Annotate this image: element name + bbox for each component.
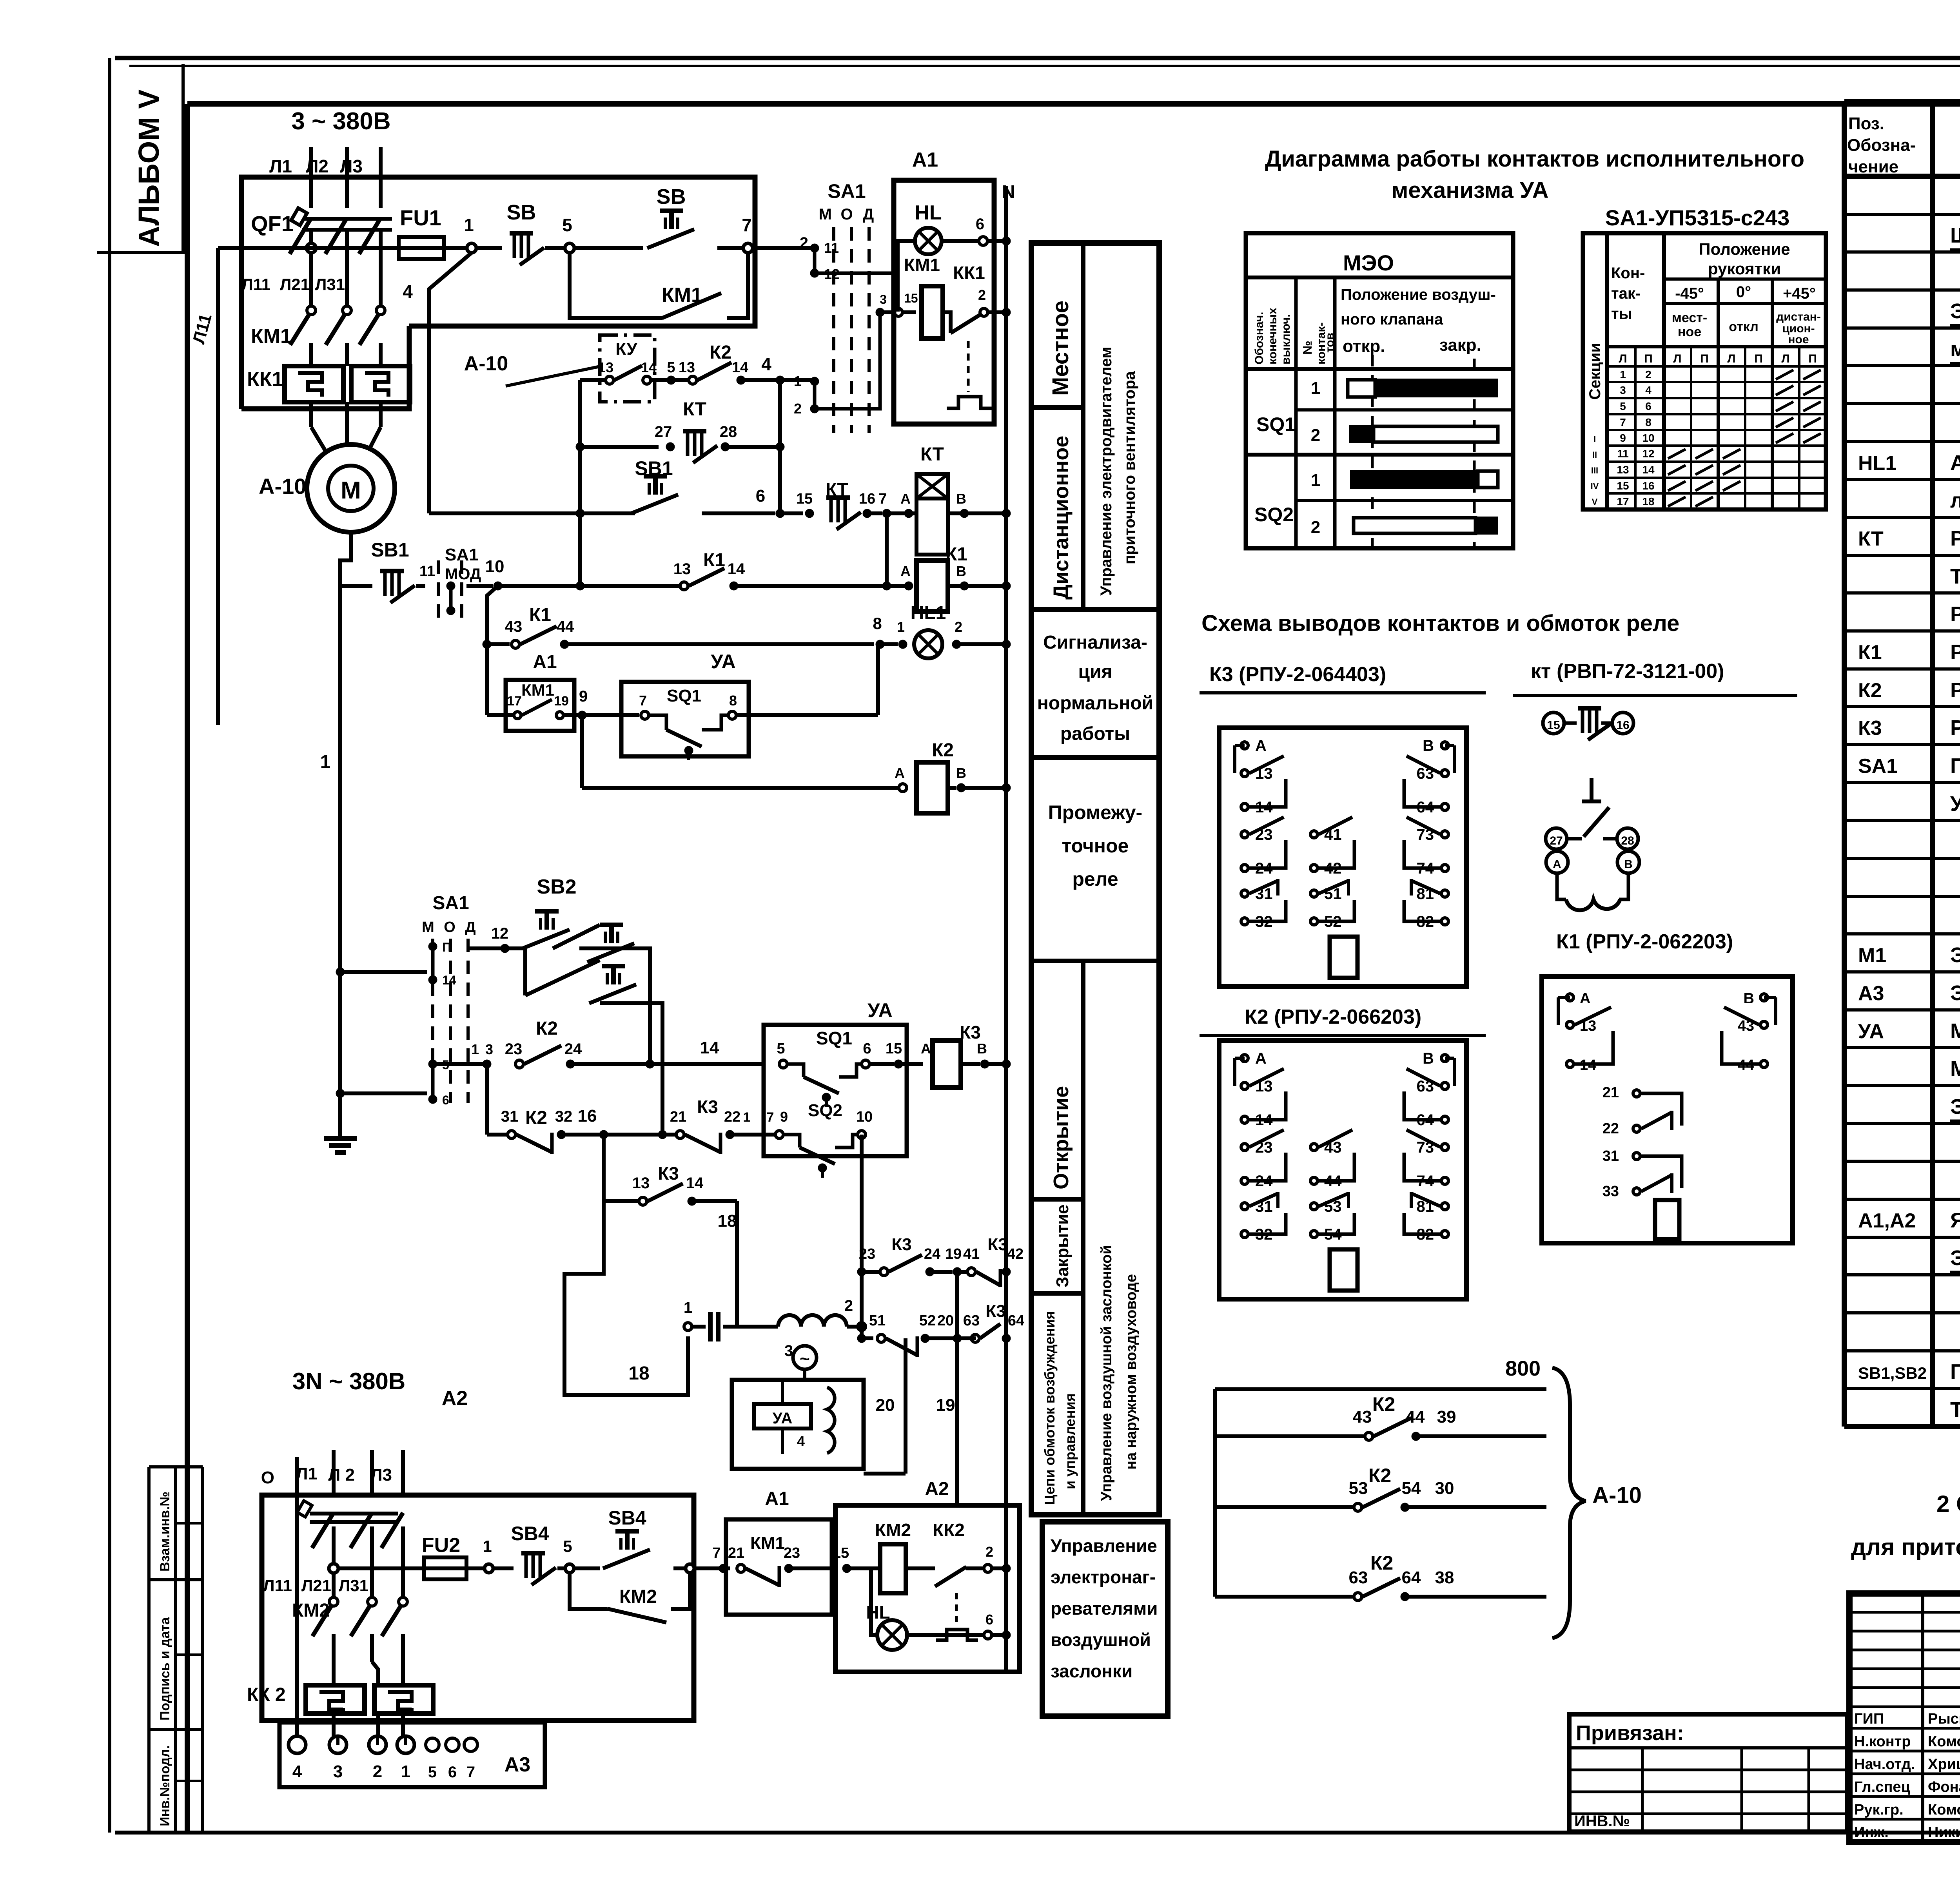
svg-text:Управление электродвигателем: Управление электродвигателем <box>1098 347 1115 596</box>
privyazan block <box>1569 1714 1847 1833</box>
svg-text:42: 42 <box>1007 1246 1024 1262</box>
relay pinout К2 (РПУ-2-066203) <box>1200 1006 1486 1299</box>
svg-text:2: 2 <box>794 401 802 417</box>
svg-text:№: № <box>1300 341 1314 355</box>
svg-text:Л21: Л21 <box>280 275 310 294</box>
thermal relay KK1 heaters <box>247 366 410 451</box>
svg-text:Реле ТУ16.523.331-71: Реле ТУ16.523.331-71 <box>1950 602 1960 626</box>
circuit breaker QF1 <box>251 208 392 306</box>
svg-text:11: 11 <box>824 240 839 256</box>
svg-text:КМ1: КМ1 <box>750 1534 785 1553</box>
svg-text:Ящик управления: Ящик управления <box>1950 1209 1960 1232</box>
svg-text:К2: К2 <box>932 740 954 761</box>
heater control box <box>1042 1522 1168 1716</box>
svg-text:3N ~ 380В: 3N ~ 380В <box>292 1368 406 1394</box>
parts table rows text <box>1950 224 1960 255</box>
svg-text:М1: М1 <box>1858 944 1886 967</box>
contact K1 43-44 (rung HL1) <box>483 605 874 649</box>
svg-text:В: В <box>1423 737 1434 754</box>
wire left bus verticals <box>576 380 784 586</box>
svg-text:3: 3 <box>1620 384 1626 396</box>
svg-text:8: 8 <box>1645 416 1651 428</box>
node 1 <box>464 215 476 253</box>
MEO table <box>1246 233 1513 548</box>
svg-text:32: 32 <box>555 1108 573 1125</box>
svg-text:2: 2 <box>844 1297 853 1314</box>
svg-text:откр.: откр. <box>1343 337 1385 356</box>
svg-text:1: 1 <box>471 1041 479 1057</box>
svg-text:дистан-: дистан- <box>1776 310 1821 323</box>
svg-text:44: 44 <box>557 618 574 635</box>
svg-text:27: 27 <box>655 423 672 441</box>
svg-text:SQ1: SQ1 <box>816 1028 852 1048</box>
svg-text:А1: А1 <box>765 1488 789 1509</box>
svg-text:Л11: Л11 <box>241 275 270 294</box>
svg-text:13: 13 <box>679 359 695 376</box>
svg-text:7: 7 <box>639 692 647 709</box>
svg-text:Местное: Местное <box>1048 301 1073 396</box>
svg-text:33: 33 <box>1602 1183 1619 1200</box>
svg-text:механизма УА: механизма УА <box>1391 178 1548 203</box>
start button SB (NO) <box>574 185 743 248</box>
svg-text:К3: К3 <box>658 1163 679 1184</box>
svg-text:А1: А1 <box>533 652 557 673</box>
wire rail node7 to SA1 <box>753 246 815 250</box>
svg-text:2: 2 <box>1311 426 1320 445</box>
thermal contact KK1 <box>943 263 1011 408</box>
function classification bar <box>1031 243 1159 1515</box>
svg-text:1: 1 <box>897 619 905 635</box>
svg-text:Н.контр: Н.контр <box>1854 1733 1911 1750</box>
svg-text:КК1: КК1 <box>953 263 985 283</box>
diagram title <box>1265 146 1804 203</box>
svg-text:и управления: и управления <box>1062 1393 1078 1489</box>
signature table <box>1849 1593 1960 1842</box>
SA1 table X marks <box>1668 370 1821 506</box>
breaker QF2 poles <box>297 1501 403 1597</box>
relay pinout KT <box>1513 660 1797 910</box>
svg-text:Л31: Л31 <box>315 275 345 294</box>
svg-text:3 ~ 380В: 3 ~ 380В <box>291 108 390 135</box>
svg-text:SQ2: SQ2 <box>808 1101 842 1120</box>
node on L1 with main rail <box>307 243 316 253</box>
contact K3 13-14 <box>599 1130 737 1327</box>
svg-text:А-10: А-10 <box>259 474 306 499</box>
svg-text:+45°: +45° <box>1783 285 1816 302</box>
wire main rail left segment <box>218 246 399 250</box>
svg-text:2 Схема составлена для приточн: 2 Схема составлена для приточной системы… <box>1936 1491 1960 1517</box>
svg-text:5: 5 <box>777 1041 785 1057</box>
box A1 with KM1 21-23 <box>694 1488 851 1615</box>
svg-text:П: П <box>442 940 451 954</box>
svg-text:КК1: КК1 <box>247 368 283 391</box>
svg-text:К2 (РПУ-2-066203): К2 (РПУ-2-066203) <box>1245 1006 1421 1028</box>
svg-text:5: 5 <box>667 359 675 376</box>
wires 20 19 <box>864 1338 957 1505</box>
svg-text:В: В <box>956 765 966 781</box>
svg-text:IV: IV <box>1591 481 1599 491</box>
svg-text:Рыскин: Рыскин <box>1928 1711 1960 1727</box>
box YA with limit switch SQ1 7-8 <box>577 644 878 760</box>
svg-text:РПУ-2-064403: РПУ-2-064403 <box>1950 716 1960 740</box>
svg-text:конечных: конечных <box>1266 308 1279 364</box>
svg-text:Подпись и дата: Подпись и дата <box>158 1617 172 1720</box>
svg-text:УА: УА <box>867 999 892 1021</box>
svg-text:I: I <box>1593 434 1596 444</box>
svg-text:КМ2: КМ2 <box>875 1520 911 1540</box>
svg-text:14: 14 <box>1642 464 1655 476</box>
svg-text:К3: К3 <box>697 1097 718 1117</box>
contact K2 13-14 <box>666 342 815 384</box>
svg-text:6: 6 <box>448 1764 457 1781</box>
svg-text:23: 23 <box>859 1246 875 1262</box>
svg-text:15: 15 <box>904 291 918 305</box>
svg-text:Инв.№подл.: Инв.№подл. <box>158 1745 172 1826</box>
button SB4 (NC) <box>493 1523 565 1585</box>
svg-text:закр.: закр. <box>1439 335 1481 355</box>
svg-text:Д: Д <box>465 919 475 935</box>
svg-text:Кон-: Кон- <box>1611 265 1645 282</box>
contactor KM2 main contacts <box>263 1576 407 1685</box>
svg-text:22: 22 <box>724 1109 740 1125</box>
svg-text:SA1: SA1 <box>1858 755 1898 778</box>
svg-text:64: 64 <box>1008 1312 1024 1329</box>
svg-text:Управление воздушной заслонк: Управление воздушной заслонкой <box>1098 1245 1115 1501</box>
svg-text:КМ1: КМ1 <box>521 681 554 699</box>
svg-text:19: 19 <box>554 694 569 709</box>
svg-text:SB4: SB4 <box>511 1523 549 1545</box>
svg-text:А2: А2 <box>442 1387 468 1410</box>
lamp HL1 <box>873 603 1011 658</box>
svg-text:кт (РВП-72-3121-00): кт (РВП-72-3121-00) <box>1531 660 1724 683</box>
svg-text:Л: Л <box>1727 352 1735 365</box>
wire node1 dropper <box>429 253 472 513</box>
svg-text:III: III <box>1591 466 1598 475</box>
rung K2 23-24 to K3 coil <box>433 1018 764 1068</box>
svg-text:6: 6 <box>863 1041 871 1057</box>
svg-text:КК2: КК2 <box>933 1520 965 1540</box>
svg-text:приточного вентилятора: приточного вентилятора <box>1121 371 1138 564</box>
svg-text:К3: К3 <box>1858 717 1882 740</box>
wire dropper node10 <box>487 586 498 715</box>
svg-text:Л3: Л3 <box>340 156 363 176</box>
svg-text:FU1: FU1 <box>400 205 441 230</box>
wire rail FU1 to node 1 <box>444 246 467 250</box>
svg-text:1: 1 <box>483 1537 492 1555</box>
svg-text:О: О <box>840 206 853 223</box>
svg-text:17: 17 <box>1617 495 1629 508</box>
svg-text:К1: К1 <box>1858 641 1882 664</box>
interlock KU box <box>464 335 655 402</box>
box A1 (fan control) <box>894 149 994 424</box>
bar merged cells text <box>1037 632 1153 890</box>
svg-text:16: 16 <box>859 491 875 507</box>
svg-text:18: 18 <box>628 1363 649 1384</box>
svg-text:Закрытие: Закрытие <box>1053 1204 1072 1287</box>
svg-text:SQ1: SQ1 <box>667 686 701 705</box>
svg-text:Элементы управления электродви: Элементы управления электродвигателем М1 <box>1950 1246 1960 1270</box>
svg-text:7: 7 <box>1620 416 1626 428</box>
svg-text:SB4: SB4 <box>608 1507 646 1529</box>
svg-text:6: 6 <box>1645 400 1651 412</box>
ladder rung 10: SB1 NC + SA1 + K1 13-14 <box>340 539 891 619</box>
svg-text:4: 4 <box>761 354 771 374</box>
svg-text:38: 38 <box>1435 1568 1454 1587</box>
switch SA1 middle section <box>336 893 476 1107</box>
svg-text:РПУ-2-062203: РПУ-2-062203 <box>1950 640 1960 664</box>
svg-text:А: А <box>900 563 911 579</box>
svg-text:П: П <box>1754 352 1763 365</box>
svg-text:Электродвигатель 380В: Электродвигатель 380В <box>1950 943 1960 967</box>
svg-text:П: П <box>1644 352 1653 365</box>
svg-text:15: 15 <box>796 491 813 507</box>
svg-text:24: 24 <box>924 1246 940 1262</box>
svg-text:14: 14 <box>686 1175 704 1192</box>
svg-text:Положение: Положение <box>1699 240 1790 258</box>
contactor coil KM1 <box>876 255 943 339</box>
svg-text:Диаграмма работы контактов исп: Диаграмма работы контактов исполнительно… <box>1265 146 1804 172</box>
svg-text:УА: УА <box>711 651 735 673</box>
svg-text:Электронагреватель: Электронагреватель <box>1950 981 1960 1005</box>
switch SA1 upper section <box>794 180 895 433</box>
svg-text:13: 13 <box>598 359 613 375</box>
svg-text:воздушной: воздушной <box>1051 1630 1151 1650</box>
svg-text:1: 1 <box>401 1762 410 1781</box>
svg-text:КТ: КТ <box>683 399 706 420</box>
svg-text:43: 43 <box>505 618 523 635</box>
svg-text:52: 52 <box>919 1312 936 1329</box>
box A2 with KM2 coil KK2 HL <box>835 1479 1020 1672</box>
node on L1 with control rail <box>329 1564 338 1573</box>
svg-text:А: А <box>895 765 905 781</box>
svg-text:14: 14 <box>641 359 657 375</box>
svg-text:14: 14 <box>442 973 456 987</box>
svg-text:выключ.: выключ. <box>1279 314 1292 364</box>
relay pinout К3 (РПУ-2-064403) <box>1200 663 1486 986</box>
svg-text:механизмом УА: механизмом УА <box>1950 337 1960 361</box>
svg-text:А1,А2: А1,А2 <box>1858 1209 1916 1232</box>
node 7 <box>742 215 753 253</box>
svg-text:SA1: SA1 <box>828 180 866 202</box>
svg-text:Поз.: Поз. <box>1848 114 1884 133</box>
svg-text:23: 23 <box>784 1545 800 1561</box>
svg-text:ное: ное <box>1678 324 1701 339</box>
svg-text:4: 4 <box>403 281 413 302</box>
svg-text:П: П <box>1808 352 1817 365</box>
emergency button SB (NC) <box>476 201 565 265</box>
svg-text:Фонарев: Фонарев <box>1928 1779 1960 1795</box>
svg-text:М: М <box>341 477 361 504</box>
svg-text:15: 15 <box>1617 480 1629 492</box>
svg-text:Л11: Л11 <box>263 1576 292 1595</box>
wire motor to ladder <box>340 532 351 586</box>
svg-text:Сигнализа-: Сигнализа- <box>1043 632 1147 653</box>
relay coil K1 <box>887 513 1011 611</box>
relay coil K3 <box>921 1022 1011 1088</box>
svg-text:Комова: Комова <box>1928 1733 1960 1750</box>
time relay coil KT <box>909 444 1011 555</box>
neutral rail N <box>1002 181 1015 1672</box>
svg-text:К2: К2 <box>536 1018 558 1039</box>
svg-text:К2: К2 <box>1858 679 1882 702</box>
svg-text:20: 20 <box>937 1312 954 1329</box>
box YA with SQ1 SQ2 <box>764 999 923 1156</box>
svg-text:9: 9 <box>579 688 588 705</box>
svg-text:Дистанционное: Дистанционное <box>1049 436 1073 600</box>
svg-text:Нач.отд.: Нач.отд. <box>1854 1756 1915 1773</box>
svg-text:7: 7 <box>712 1545 720 1561</box>
svg-text:64: 64 <box>1402 1568 1421 1587</box>
svg-text:К1: К1 <box>529 605 551 625</box>
svg-text:12: 12 <box>1642 448 1654 460</box>
svg-text:Секции: Секции <box>1586 343 1604 400</box>
svg-text:К2: К2 <box>525 1108 547 1128</box>
svg-text:SB: SB <box>656 185 686 208</box>
svg-text:Пост кнопочный ПКЕ-212-2УЗ: Пост кнопочный ПКЕ-212-2УЗ <box>1950 1360 1960 1383</box>
svg-text:КМ1: КМ1 <box>904 255 940 275</box>
svg-text:К3: К3 <box>987 1235 1007 1254</box>
svg-text:К2: К2 <box>710 342 731 363</box>
svg-text:14: 14 <box>732 359 748 376</box>
svg-text:2: 2 <box>1311 518 1320 537</box>
svg-text:Л: Л <box>1673 352 1681 365</box>
svg-text:21: 21 <box>670 1109 686 1125</box>
svg-text:13: 13 <box>632 1175 650 1192</box>
svg-text:II: II <box>1592 450 1597 460</box>
svg-text:16: 16 <box>1642 480 1654 492</box>
svg-text:В: В <box>1423 1050 1434 1067</box>
svg-text:5: 5 <box>428 1764 437 1781</box>
svg-text:0°: 0° <box>1736 283 1751 301</box>
svg-text:31: 31 <box>501 1108 519 1125</box>
svg-text:HL1: HL1 <box>911 603 946 624</box>
svg-text:А1: А1 <box>912 149 938 171</box>
wire L11 drop <box>189 248 218 725</box>
svg-text:А3: А3 <box>1858 982 1884 1005</box>
relay coil K2 <box>582 715 1011 813</box>
svg-text:SA1-УП5315-с243: SA1-УП5315-с243 <box>1605 205 1789 230</box>
svg-text:SQ1: SQ1 <box>1256 413 1296 435</box>
svg-text:П: П <box>1700 352 1709 365</box>
svg-text:3: 3 <box>485 1041 493 1057</box>
svg-text:В: В <box>977 1041 987 1057</box>
svg-text:А: А <box>1255 1050 1267 1067</box>
contactor KM1 main contacts <box>241 275 385 366</box>
svg-text:Никитина: Никитина <box>1928 1824 1960 1841</box>
A-10 brace <box>1552 1368 1642 1638</box>
svg-text:31: 31 <box>1602 1148 1619 1164</box>
thermal relay KK2 heaters <box>247 1495 433 1736</box>
svg-text:Л31: Л31 <box>339 1576 368 1595</box>
contact K2 53-54 <box>1215 1465 1546 1512</box>
node 5 (lower) <box>563 1537 574 1573</box>
svg-text:КМ1: КМ1 <box>251 325 292 348</box>
notes below table <box>1851 1447 1960 1560</box>
svg-text:6: 6 <box>976 216 984 233</box>
svg-text:Реле РВП72-3121-00У4 220/50: Реле РВП72-3121-00У4 220/50 <box>1950 527 1960 550</box>
svg-text:реле: реле <box>1072 868 1118 890</box>
svg-text:Л: Л <box>1781 352 1789 365</box>
svg-text:Л1: Л1 <box>269 156 292 176</box>
svg-text:~: ~ <box>800 1349 810 1369</box>
svg-text:41: 41 <box>963 1246 980 1262</box>
svg-text:тов: тов <box>1323 333 1336 353</box>
svg-text:1: 1 <box>1311 471 1320 490</box>
svg-text:16: 16 <box>578 1106 597 1126</box>
svg-text:Обозна-: Обозна- <box>1847 136 1916 155</box>
svg-text:УП5315-с243: УП5315-с243 <box>1950 792 1960 816</box>
terminal block A3 <box>279 1722 545 1787</box>
contacts K3 23-24 41-42 <box>857 1235 1024 1338</box>
svg-text:ГИП: ГИП <box>1854 1711 1884 1727</box>
svg-text:ты: ты <box>1611 305 1632 323</box>
button SB1 (NO) <box>429 457 775 518</box>
svg-text:5: 5 <box>562 215 572 235</box>
svg-text:ция: ция <box>1078 662 1112 682</box>
svg-text:Взам.инв.№: Взам.инв.№ <box>158 1492 172 1572</box>
svg-text:2: 2 <box>373 1762 382 1781</box>
svg-text:В: В <box>956 563 966 579</box>
svg-text:Л: Л <box>1619 352 1627 365</box>
svg-text:электронаг-: электронаг- <box>1051 1567 1156 1587</box>
svg-text:HL: HL <box>915 201 942 224</box>
svg-text:14: 14 <box>728 560 745 578</box>
svg-text:800: 800 <box>1505 1357 1541 1380</box>
svg-text:А-10: А-10 <box>464 352 508 375</box>
buttons SB2 crossing group <box>468 876 662 1135</box>
svg-text:А2: А2 <box>925 1479 949 1499</box>
svg-text:К3 (РПУ-2-064403): К3 (РПУ-2-064403) <box>1209 663 1386 686</box>
svg-text:ТУ16-526.216-78: ТУ16-526.216-78 <box>1950 1398 1960 1421</box>
capacitor and valve motor <box>684 1297 866 1380</box>
svg-text:SA1: SA1 <box>432 893 469 914</box>
svg-text:Щит автоматизации П1 (П3,П4,П5: Щит автоматизации П1 (П3,П4,П5) <box>1950 224 1960 247</box>
svg-text:Д: Д <box>863 206 874 223</box>
contact KU 13-14 <box>580 359 666 384</box>
svg-text:1: 1 <box>464 215 474 235</box>
svg-text:А: А <box>1255 737 1267 754</box>
svg-text:М: М <box>422 919 434 935</box>
svg-text:51: 51 <box>869 1312 886 1329</box>
svg-text:МЭО: МЭО <box>1343 250 1394 275</box>
phase leads L1 L2 L3 <box>269 147 381 208</box>
svg-text:Элементы управления электродви: Элементы управления электродвигателем М1 <box>1950 299 1960 323</box>
svg-text:8: 8 <box>873 614 882 633</box>
svg-text:63: 63 <box>1349 1568 1368 1587</box>
svg-text:11: 11 <box>419 563 435 580</box>
svg-text:на наружном воздуховоде: на наружном воздуховоде <box>1123 1274 1140 1470</box>
svg-text:КК 2: КК 2 <box>247 1684 286 1705</box>
svg-text:5: 5 <box>1620 400 1626 412</box>
svg-text:4: 4 <box>1645 384 1651 396</box>
svg-text:4: 4 <box>797 1433 805 1449</box>
svg-text:АЛЬБОМ V: АЛЬБОМ V <box>132 89 165 247</box>
svg-text:Хрищакович: Хрищакович <box>1928 1756 1960 1773</box>
box A2 (heater control cabinet) <box>262 1387 694 1720</box>
MEO bars SQ2 <box>1350 470 1498 535</box>
svg-text:КУ: КУ <box>615 339 637 359</box>
svg-text:6: 6 <box>985 1612 993 1628</box>
svg-text:УА: УА <box>1858 1020 1884 1043</box>
lamp HL <box>898 201 1011 312</box>
svg-text:39: 39 <box>1437 1407 1456 1427</box>
svg-text:К3: К3 <box>985 1302 1005 1321</box>
svg-text:10: 10 <box>1642 432 1654 444</box>
svg-text:А: А <box>1580 990 1590 1007</box>
svg-text:УА: УА <box>773 1410 793 1427</box>
svg-text:12: 12 <box>491 925 509 942</box>
svg-text:Элементы управления электродви: Элементы управления электродвигателем <box>1950 1095 1960 1118</box>
